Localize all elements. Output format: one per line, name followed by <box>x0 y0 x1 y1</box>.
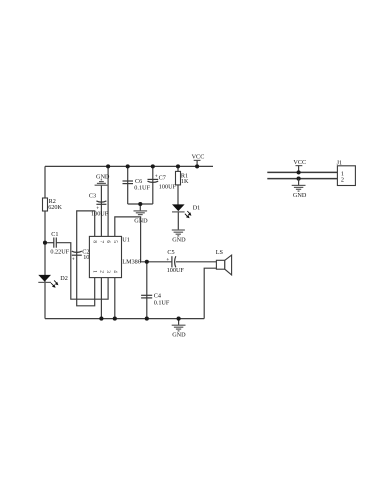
wire pin8 to C2 top <box>77 211 95 306</box>
wire R1 branch <box>177 166 179 205</box>
junction dot GND/J1 wire <box>297 177 301 181</box>
resistor R1 <box>176 171 189 185</box>
svg-text:3: 3 <box>105 270 111 273</box>
svg-text:C7: C7 <box>159 174 166 181</box>
wire pin2 to ground rail <box>100 278 102 319</box>
resistor R2 <box>43 198 63 211</box>
junction dot pin6/rail <box>106 164 110 168</box>
wire pin4 to ground rail <box>114 278 116 319</box>
svg-text:620K: 620K <box>48 204 62 211</box>
svg-text:U1: U1 <box>122 237 130 244</box>
wire top power rail <box>45 165 213 167</box>
capacitor C7 <box>148 174 177 191</box>
wire D1 cathode to ground <box>177 211 179 230</box>
svg-text:6: 6 <box>105 240 111 243</box>
op-amp U1 LM386 body <box>89 236 121 277</box>
wire speaker return riser <box>204 268 216 318</box>
svg-text:VCC: VCC <box>192 153 205 160</box>
wire pin6 to VCC rail <box>107 166 109 236</box>
svg-text:GND: GND <box>172 332 186 339</box>
power VCC at J1 <box>293 159 306 172</box>
ground symbol above C3 (inverted) <box>95 173 110 185</box>
svg-text:LS: LS <box>216 249 224 256</box>
wire C6 branch <box>127 166 129 204</box>
svg-text:+: + <box>166 257 169 263</box>
speaker LS <box>216 249 232 275</box>
junction dot gnd stem/sub-rail <box>138 202 142 206</box>
wire pin5 output to C5 <box>115 217 172 262</box>
junction dot pin2/ground rail <box>99 317 103 321</box>
junction dot C1/left rail <box>43 241 47 245</box>
LED D1 <box>172 204 200 218</box>
wire C5 to speaker <box>176 261 217 263</box>
svg-text:GND: GND <box>96 173 110 180</box>
svg-text:+: + <box>155 174 158 180</box>
capacitor C1 <box>50 231 69 255</box>
junction dot C7/rail <box>151 164 155 168</box>
svg-text:C3: C3 <box>89 193 96 200</box>
svg-text:GND: GND <box>172 236 186 243</box>
svg-text:D1: D1 <box>193 204 201 211</box>
svg-text:8: 8 <box>92 240 98 243</box>
ground symbol under D1 <box>172 230 186 243</box>
capacitor C3 (bypass) <box>89 193 109 218</box>
junction dot C4/ground rail <box>145 317 149 321</box>
svg-text:+: + <box>72 256 75 262</box>
wire C7 branch <box>152 166 154 204</box>
wire C1 to pin3 <box>56 243 108 300</box>
svg-text:C2: C2 <box>82 248 89 255</box>
svg-text:100UF: 100UF <box>167 267 185 274</box>
capacitor C4 (output zobel) <box>141 293 170 307</box>
wire bottom ground rail <box>45 318 204 320</box>
svg-text:2: 2 <box>341 177 344 184</box>
junction dot gnd/ground rail <box>177 317 181 321</box>
ground symbol on bottom rail <box>172 319 186 339</box>
wire left rail <box>44 166 46 318</box>
svg-text:1: 1 <box>92 270 98 273</box>
capacitor C6 <box>123 178 151 191</box>
svg-text:1K: 1K <box>181 178 189 185</box>
svg-text:D2: D2 <box>60 275 68 282</box>
junction dot C6/rail <box>126 164 130 168</box>
svg-text:4: 4 <box>112 270 118 273</box>
wire J1 pin1 <box>267 171 337 173</box>
junction dot R1/rail <box>176 164 180 168</box>
junction dot pin4/ground rail <box>113 317 117 321</box>
svg-text:GND: GND <box>293 192 307 199</box>
wire C4 branch <box>146 262 148 319</box>
svg-text:7: 7 <box>98 240 104 243</box>
wire decoupling sub-rail <box>128 203 153 205</box>
svg-text:5: 5 <box>112 240 118 243</box>
capacitor C5 (output coupling) <box>166 249 184 274</box>
capacitor C2 (pin8-pin1 gain cap) <box>72 248 90 262</box>
wire C1 input branch <box>45 242 54 244</box>
svg-text:C1: C1 <box>51 231 58 238</box>
svg-text:0.1UF: 0.1UF <box>154 299 170 306</box>
svg-text:2: 2 <box>98 270 104 273</box>
junction dot VCC/rail <box>195 164 199 168</box>
svg-text:100UF: 100UF <box>91 211 109 218</box>
svg-text:0.22UF: 0.22UF <box>50 248 69 255</box>
svg-text:LM386: LM386 <box>122 258 141 265</box>
ground symbol under decoupling caps <box>134 204 148 215</box>
svg-text:0.1UF: 0.1UF <box>134 185 150 192</box>
junction dot VCC/J1 wire <box>297 170 301 174</box>
ground symbol at J1 <box>292 179 307 199</box>
junction dot C4/output <box>145 260 149 264</box>
power VCC main <box>192 153 205 166</box>
wire J1 pin2 <box>267 178 337 180</box>
LED D2 <box>38 275 68 288</box>
svg-text:100UF: 100UF <box>159 184 177 191</box>
svg-text:C5: C5 <box>167 249 174 256</box>
connector J1 <box>337 160 356 186</box>
wire pin7 bypass to C3 <box>100 185 102 236</box>
